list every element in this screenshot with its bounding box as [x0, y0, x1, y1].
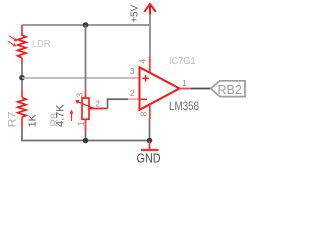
- op-amp minus sign: [141, 98, 147, 100]
- wire top rail +5V net: [22, 24, 150, 26]
- svg-text:LM358: LM358: [169, 99, 199, 113]
- svg-text:GND: GND: [137, 151, 161, 166]
- ground symbol: [149, 141, 151, 150]
- svg-text:R7: R7: [7, 112, 19, 128]
- node junction dot pot/GND rail: [83, 138, 89, 144]
- power +5V arrow: [144, 4, 156, 15]
- op-amp IC7 LM358 triangle: [140, 67, 180, 110]
- wire op-amp output: [180, 88, 192, 90]
- svg-text:1K: 1K: [26, 114, 38, 127]
- svg-text:4: 4: [138, 59, 148, 64]
- svg-text:LDR: LDR: [32, 39, 51, 50]
- net flag RB2: [211, 81, 245, 97]
- LDR light arrow 1: [9, 36, 17, 41]
- svg-text:2: 2: [130, 88, 135, 98]
- wire R7 top lead: [21, 81, 23, 91]
- svg-text:+5V: +5V: [129, 4, 140, 22]
- svg-text:RB2: RB2: [218, 83, 242, 97]
- trimmer R8 body: [82, 98, 89, 119]
- trimmer R8 wiper diagonal with arrowhead: [75, 100, 94, 108]
- svg-text:3: 3: [130, 66, 135, 76]
- LDR light arrow 2: [8, 41, 16, 46]
- wire pot bottom lead: [85, 119, 87, 131]
- resistor R7 zigzag: [18, 97, 26, 117]
- wire op-amp pin4 power: [149, 25, 151, 57]
- wire middle to op-amp +input: [22, 77, 128, 79]
- op-amp plus sign: [142, 75, 149, 82]
- wire mid vertical to pot: [85, 25, 87, 91]
- svg-text:4.7K: 4.7K: [55, 104, 67, 127]
- wire LDR bottom lead: [21, 58, 23, 64]
- wire R7 bottom lead: [21, 117, 23, 129]
- node junction dot LDR/R7: [19, 75, 25, 81]
- wire pot wiper to op-amp -input: [89, 108, 106, 110]
- resistor LDR zigzag: [18, 35, 26, 58]
- wire LDR top lead: [21, 25, 23, 36]
- svg-text:IC7G1: IC7G1: [169, 56, 196, 67]
- node junction dot top rail: [83, 22, 89, 28]
- svg-text:2: 2: [95, 98, 100, 108]
- svg-text:8: 8: [138, 111, 148, 116]
- wire +5V stub vertical: [149, 14, 151, 25]
- svg-text:1: 1: [76, 121, 86, 126]
- svg-text:3: 3: [75, 93, 85, 98]
- trimmer R8 adjust arrow: [69, 110, 73, 122]
- wire op-amp pin8: [149, 105, 151, 120]
- svg-text:1: 1: [182, 78, 187, 88]
- node junction dot GND: [147, 138, 153, 144]
- wire bottom rail GND net: [22, 130, 150, 141]
